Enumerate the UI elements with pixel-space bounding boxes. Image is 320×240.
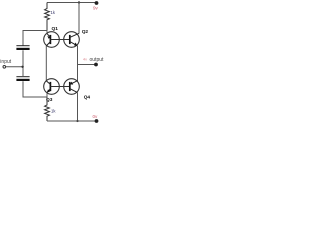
svg-text:Q4: Q4 — [84, 95, 91, 101]
wire top supply rail — [47, 2, 98, 4]
transistor Q4 — [64, 79, 80, 95]
svg-text:input: input — [0, 59, 11, 65]
node output terminal dot — [94, 63, 98, 67]
node input junction dot — [21, 66, 23, 68]
wire Q4 collector to bottom rail — [77, 93, 79, 121]
node 0v terminal dot — [95, 119, 99, 123]
svg-text:0v: 0v — [93, 114, 99, 119]
node V+ terminal dot — [95, 1, 99, 5]
capacitor C1 — [16, 46, 29, 49]
wire Q2 collector to top rail — [78, 3, 80, 34]
svg-text:output: output — [90, 57, 105, 63]
wire Q1 base to Q2 base — [50, 39, 69, 41]
wire Q3 base to Q4 base — [50, 86, 69, 88]
svg-text:4v: 4v — [83, 58, 87, 62]
transistor Q1 — [44, 30, 60, 47]
wire output lead — [78, 64, 96, 66]
wire input lead — [6, 66, 23, 68]
svg-text:9v: 9v — [93, 6, 99, 11]
node input terminal — [3, 66, 6, 69]
node junction bottom rail / Q4 collector — [76, 120, 78, 122]
svg-text:Q1: Q1 — [52, 26, 59, 32]
node junction top rail / Q2 collector — [78, 1, 80, 3]
wire C1 bottom to input node to C2 top — [22, 50, 24, 76]
transistor Q3 — [44, 79, 60, 95]
resistor R1 — [45, 3, 50, 31]
wire Q3 emitter to node B — [46, 93, 48, 98]
wire node A horizontal — [23, 31, 47, 46]
wire C2 bottom to node B — [23, 81, 47, 97]
wire Q2 emitter / output node / Q4 emitter — [77, 46, 79, 81]
resistor R2 — [45, 97, 50, 121]
wire bottom rail — [47, 120, 98, 122]
capacitor C2 — [16, 77, 29, 80]
transistor Q2 — [64, 32, 80, 48]
wire Q1 collector to Q3 collector — [45, 46, 47, 81]
svg-text:Q2: Q2 — [82, 29, 89, 35]
